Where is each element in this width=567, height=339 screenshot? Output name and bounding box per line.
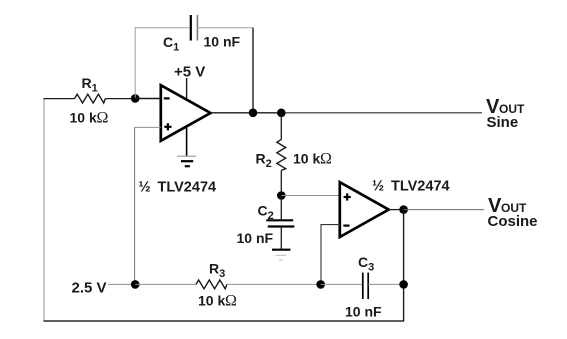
wire left frame vertical xyxy=(43,99,45,321)
svg-text:10 nF: 10 nF xyxy=(237,230,274,246)
op-amp U1 plus input mark xyxy=(164,126,171,128)
wire R1 left lead xyxy=(44,98,75,100)
wire C2 bottom lead xyxy=(280,227,282,250)
wire cosine node down to bottom rail xyxy=(403,210,405,321)
svg-text:TLV2474: TLV2474 xyxy=(391,179,450,195)
node E junction dot (2.5V rail) xyxy=(131,280,140,289)
svg-text:Ω: Ω xyxy=(320,151,332,168)
wire R3 right lead to node F xyxy=(227,283,321,285)
wire U1 noninverting input feed xyxy=(135,126,161,128)
op-amp U2 minus input mark xyxy=(343,225,349,227)
wire C1 loop top right segment xyxy=(197,27,253,29)
wire node A to U1 inverting input xyxy=(135,97,161,99)
op-amp U2 plus input mark xyxy=(344,196,351,198)
svg-text:+5 V: +5 V xyxy=(174,64,205,81)
node A junction dot (R1 / C1 / inverting input) xyxy=(131,94,140,103)
wire U1 ground stem xyxy=(186,127,188,157)
capacitor C2 xyxy=(266,219,293,221)
node D junction dot (R2 / C2 / U2 + input) xyxy=(277,191,286,200)
svg-text:10 k: 10 k xyxy=(198,293,225,309)
svg-text:Ω: Ω xyxy=(97,110,109,127)
svg-text:2.5 V: 2.5 V xyxy=(72,280,107,297)
op-amp U1 (1/2 TLV2474) xyxy=(161,85,211,141)
svg-text:TLV2474: TLV2474 xyxy=(158,180,217,196)
svg-text:Sine: Sine xyxy=(487,114,519,131)
svg-text:½: ½ xyxy=(372,179,384,195)
wire 2.5V vertical riser xyxy=(134,127,136,284)
wire R1 right lead xyxy=(105,98,160,100)
wire node D to U2 noninverting input xyxy=(281,195,340,197)
wire C1 loop right vertical xyxy=(252,28,254,113)
svg-text:Ω: Ω xyxy=(225,293,237,310)
wire C2 top lead xyxy=(280,196,282,221)
wire U2 inverting input feed xyxy=(321,225,340,285)
capacitor C1 xyxy=(190,15,192,41)
wire C1 loop top left segment xyxy=(135,27,191,29)
wire node F to C3 left plate xyxy=(321,283,363,285)
resistor R2 xyxy=(277,140,286,171)
svg-text:Cosine: Cosine xyxy=(488,213,538,230)
op-amp U2 (1/2 TLV2474) xyxy=(340,182,389,237)
wire node E to R3 xyxy=(135,283,196,285)
node B junction dot (C1 right / output) xyxy=(249,109,258,118)
svg-text:10 k: 10 k xyxy=(293,151,320,167)
svg-text:10 k: 10 k xyxy=(70,110,97,126)
node H junction dot (U2 output / C3 right riser) xyxy=(399,205,408,214)
ground C2 xyxy=(272,249,291,251)
wire U2 output xyxy=(389,209,404,211)
wire C3 right plate to node G xyxy=(368,283,403,285)
node G junction dot (C3 right / cosine riser) xyxy=(399,280,408,289)
op-amp U1 minus input mark xyxy=(164,97,170,99)
wire C1 loop left vertical xyxy=(134,28,136,98)
node C junction dot (R2 top / output) xyxy=(277,109,286,118)
svg-text:10 nF: 10 nF xyxy=(204,34,241,50)
wire VOUT Cosine lead xyxy=(404,209,484,211)
wire bottom rail xyxy=(44,320,405,322)
wire U1 output to VOUT Sine xyxy=(211,112,282,114)
wire R2 bottom lead xyxy=(280,170,282,195)
wire 2.5V lead to node E xyxy=(108,283,135,285)
node F junction dot (R3 / C3 left / U2 - riser) xyxy=(316,280,325,289)
svg-text:½: ½ xyxy=(139,180,151,196)
resistor R3 xyxy=(196,280,227,289)
resistor R1 xyxy=(75,94,106,103)
svg-text:10 nF: 10 nF xyxy=(345,304,382,320)
wire +5V supply stem xyxy=(186,78,188,101)
capacitor C3 xyxy=(362,273,364,299)
ground U1 xyxy=(177,155,196,157)
wire R2 top lead xyxy=(280,113,282,140)
